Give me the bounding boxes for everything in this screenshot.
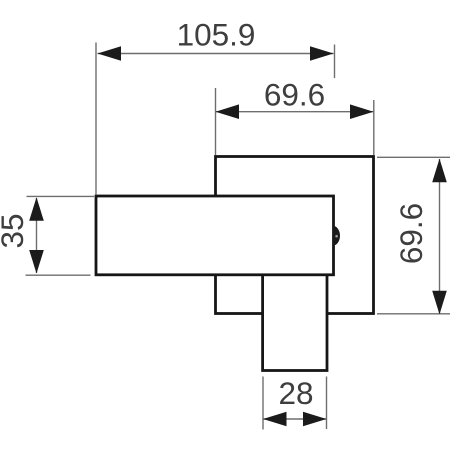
dim 69.6 top line: [216, 111, 374, 113]
dim 69.6 top arrow left: [216, 104, 240, 119]
dim 105.9 arrow left: [98, 46, 122, 61]
dim 28 arrow left: [263, 412, 287, 427]
dim 69.6 right arrow up: [432, 159, 447, 183]
bottom stem rectangle (28 wide): [263, 274, 327, 371]
dim 35 arrow up: [29, 197, 44, 221]
dim 35 extension line top: [27, 195, 95, 197]
svg-text:69.6: 69.6: [393, 203, 429, 264]
dim 28 line: [263, 418, 327, 420]
dim 28 extension line left: [262, 377, 264, 430]
dim 69.6 top arrow right: [350, 104, 374, 119]
svg-text:69.6: 69.6: [264, 77, 325, 113]
knob on arm right edge: [333, 226, 340, 246]
dim 69.6 right arrow down: [432, 291, 447, 315]
dim 28 arrow right: [303, 412, 327, 427]
horizontal arm (105.9 x 35): [96, 196, 334, 275]
dim 69.6 right extension line top: [377, 156, 450, 158]
svg-text:28: 28: [278, 375, 313, 411]
dim 69.6 top extension line left: [215, 88, 217, 155]
dim 35 extension line bottom: [26, 274, 91, 276]
dim 69.6 top extension line right: [373, 100, 375, 155]
svg-text:105.9: 105.9: [177, 17, 256, 53]
dim 105.9 extension line left: [95, 43, 97, 196]
dim 105.9 arrow right: [310, 46, 334, 61]
svg-text:35: 35: [0, 213, 30, 248]
knob highlight: [335, 235, 338, 238]
dim 35 arrow down: [29, 250, 44, 274]
dim 105.9 line: [98, 53, 334, 55]
dim 69.6 right line: [439, 159, 441, 314]
dim 105.9 extension line right: [334, 45, 336, 79]
dim 35 line: [36, 198, 38, 273]
back plate square (69.6 x 69.6): [216, 157, 374, 314]
dim 28 extension line right: [326, 377, 328, 430]
dim 69.6 right extension line bottom: [377, 313, 450, 315]
